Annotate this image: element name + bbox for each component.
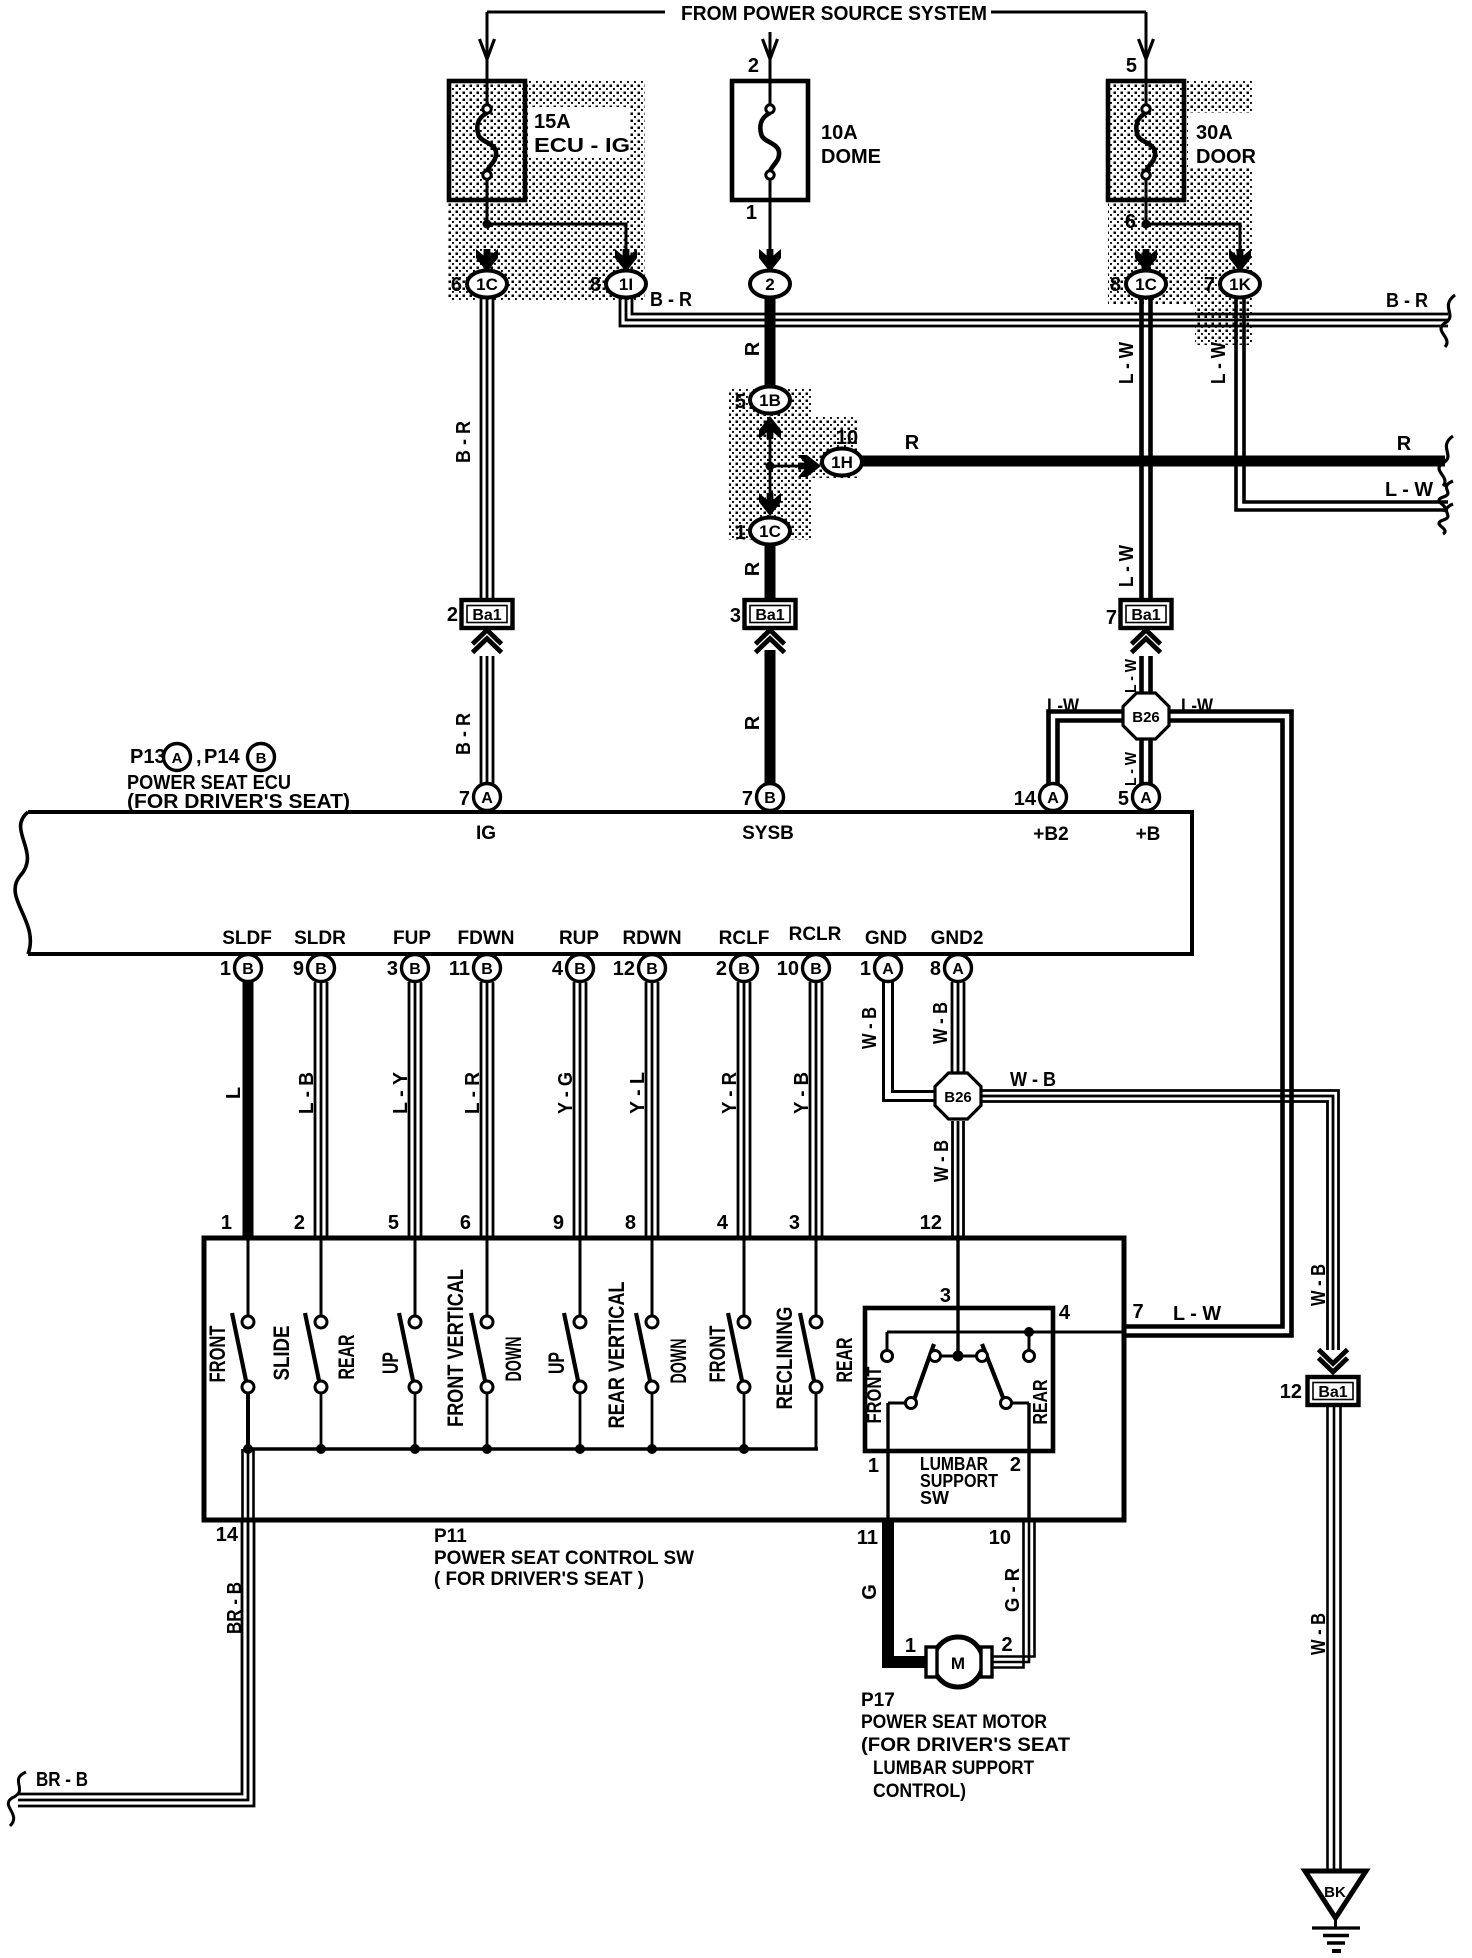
svg-text:A: A — [172, 750, 183, 767]
svg-text:3: 3 — [730, 605, 741, 627]
svg-text:10A: 10A — [821, 122, 858, 144]
svg-text:IG: IG — [476, 823, 496, 844]
svg-text:1K: 1K — [1229, 275, 1251, 294]
svg-text:W - B: W - B — [1308, 1264, 1330, 1306]
svg-text:B: B — [481, 961, 493, 978]
svg-text:(FOR DRIVER'S SEAT: (FOR DRIVER'S SEAT — [861, 1735, 1070, 1756]
svg-text:P13: P13 — [130, 746, 166, 768]
svg-text:B - R: B - R — [650, 289, 692, 311]
svg-text:GND: GND — [865, 928, 907, 949]
svg-text:5: 5 — [388, 1212, 399, 1234]
svg-text:7: 7 — [1132, 1301, 1143, 1323]
svg-text:1: 1 — [905, 1635, 916, 1657]
svg-text:Y - L: Y - L — [627, 1072, 649, 1114]
svg-text:L - W: L - W — [1208, 342, 1230, 384]
svg-text:1H: 1H — [831, 453, 853, 472]
svg-text:GND2: GND2 — [931, 928, 984, 949]
svg-text:7: 7 — [742, 788, 753, 810]
svg-text:1C: 1C — [1135, 275, 1157, 294]
svg-text:B: B — [810, 961, 822, 978]
svg-text:2: 2 — [447, 604, 458, 626]
svg-text:B - R: B - R — [1386, 290, 1428, 312]
svg-text:(FOR DRIVER'S SEAT): (FOR DRIVER'S SEAT) — [127, 791, 350, 813]
svg-text:A: A — [1047, 790, 1059, 807]
svg-text:B: B — [646, 961, 658, 978]
svg-text:3: 3 — [789, 1212, 800, 1234]
svg-text:UP: UP — [544, 1352, 569, 1374]
svg-text:5: 5 — [735, 391, 746, 413]
svg-text:4: 4 — [1059, 1302, 1071, 1324]
svg-text:3: 3 — [940, 1285, 951, 1307]
svg-text:5: 5 — [1118, 788, 1129, 810]
svg-text:W - B: W - B — [1308, 1613, 1330, 1655]
svg-text:REAR: REAR — [1030, 1379, 1052, 1424]
svg-text:R: R — [1397, 433, 1412, 455]
svg-text:FROM POWER SOURCE SYSTEM: FROM POWER SOURCE SYSTEM — [681, 3, 987, 25]
svg-text:L: L — [223, 1087, 245, 1099]
svg-text:1: 1 — [746, 202, 757, 224]
svg-text:14: 14 — [1014, 788, 1037, 810]
svg-text:SLIDE: SLIDE — [269, 1326, 294, 1381]
svg-text:1: 1 — [868, 1455, 879, 1477]
svg-text:8: 8 — [625, 1212, 636, 1234]
svg-text:2: 2 — [716, 958, 727, 980]
svg-text:R: R — [742, 561, 764, 576]
svg-text:L - Y: L - Y — [390, 1071, 412, 1114]
svg-text:2: 2 — [294, 1212, 305, 1234]
svg-text:B: B — [315, 961, 327, 978]
svg-text:9: 9 — [553, 1212, 564, 1234]
svg-text:2: 2 — [748, 55, 759, 77]
svg-text:30A: 30A — [1196, 122, 1233, 144]
svg-text:CONTROL): CONTROL) — [873, 1781, 966, 1802]
svg-text:A: A — [1140, 790, 1152, 807]
svg-text:6: 6 — [451, 274, 462, 296]
svg-text:B: B — [574, 961, 586, 978]
svg-text:5: 5 — [1126, 55, 1137, 77]
svg-text:RCLR: RCLR — [789, 924, 842, 945]
svg-text:B: B — [242, 961, 254, 978]
svg-text:9: 9 — [293, 958, 304, 980]
svg-text:W - B: W - B — [930, 1002, 952, 1044]
svg-text:REAR: REAR — [334, 1334, 359, 1379]
svg-text:L-W: L-W — [1181, 696, 1213, 717]
svg-text:11: 11 — [857, 1527, 878, 1549]
svg-text:ECU - IG: ECU - IG — [534, 135, 630, 157]
svg-text:12: 12 — [920, 1212, 942, 1234]
svg-text:M: M — [951, 1654, 965, 1673]
svg-text:FDWN: FDWN — [458, 928, 515, 949]
svg-text:,: , — [196, 746, 202, 768]
svg-text:7: 7 — [1204, 274, 1215, 296]
svg-text:7: 7 — [459, 788, 470, 810]
svg-text:Y - B: Y - B — [791, 1072, 813, 1114]
svg-text:FRONT: FRONT — [205, 1325, 230, 1382]
svg-text:L - R: L - R — [462, 1071, 484, 1114]
svg-text:DOOR: DOOR — [1196, 146, 1257, 168]
svg-text:4: 4 — [552, 958, 564, 980]
svg-text:L - W: L - W — [1173, 1303, 1221, 1325]
svg-text:15A: 15A — [534, 111, 571, 133]
svg-text:+B2: +B2 — [1033, 824, 1068, 845]
svg-text:FRONT: FRONT — [705, 1325, 730, 1382]
svg-text:L - W: L - W — [1385, 479, 1433, 501]
svg-text:2: 2 — [1001, 1634, 1012, 1656]
svg-text:10: 10 — [836, 427, 858, 449]
svg-text:( FOR DRIVER'S SEAT ): ( FOR DRIVER'S SEAT ) — [434, 1569, 644, 1590]
svg-text:10: 10 — [777, 958, 799, 980]
svg-text:1C: 1C — [476, 275, 498, 294]
svg-text:P11: P11 — [434, 1526, 467, 1547]
svg-text:L - W: L - W — [1123, 658, 1140, 693]
svg-text:BR - B: BR - B — [224, 1582, 246, 1634]
svg-text:FUP: FUP — [393, 928, 431, 949]
svg-text:B26: B26 — [944, 1089, 972, 1106]
svg-text:B: B — [409, 961, 421, 978]
svg-text:Ba1: Ba1 — [472, 607, 501, 624]
svg-text:L - B: L - B — [296, 1072, 318, 1114]
svg-text:DOME: DOME — [821, 146, 881, 168]
svg-text:UP: UP — [378, 1352, 403, 1374]
svg-text:7: 7 — [1106, 607, 1117, 629]
svg-text:W - B: W - B — [859, 1007, 881, 1049]
svg-text:BK: BK — [1324, 1884, 1346, 1901]
svg-text:POWER SEAT CONTROL SW: POWER SEAT CONTROL SW — [434, 1548, 694, 1569]
svg-text:FRONT: FRONT — [864, 1367, 886, 1424]
svg-text:REAR VERTICAL: REAR VERTICAL — [604, 1282, 629, 1429]
svg-text:Y - R: Y - R — [719, 1071, 741, 1114]
svg-text:B: B — [738, 961, 750, 978]
svg-text:R: R — [742, 341, 764, 356]
svg-text:Y - G: Y - G — [555, 1072, 577, 1114]
svg-text:RDWN: RDWN — [622, 928, 681, 949]
svg-text:Ba1: Ba1 — [755, 607, 784, 624]
svg-text:R: R — [905, 432, 920, 454]
svg-text:SLDF: SLDF — [222, 928, 272, 949]
svg-text:1B: 1B — [759, 391, 781, 410]
svg-text:6: 6 — [460, 1212, 471, 1234]
svg-text:G: G — [859, 1584, 881, 1600]
svg-text:R: R — [742, 715, 764, 730]
svg-text:A: A — [882, 961, 894, 978]
svg-text:DOWN: DOWN — [666, 1339, 691, 1384]
svg-text:L-W: L-W — [1047, 696, 1079, 717]
svg-text:12: 12 — [613, 958, 635, 980]
svg-text:L - W: L - W — [1116, 342, 1138, 384]
svg-text:SYSB: SYSB — [742, 823, 794, 844]
svg-text:RCLF: RCLF — [719, 928, 770, 949]
svg-text:P14: P14 — [204, 746, 240, 768]
svg-text:G - R: G - R — [1002, 1567, 1024, 1612]
svg-text:SLDR: SLDR — [294, 928, 346, 949]
svg-text:B - R: B - R — [453, 713, 475, 755]
svg-text:BR - B: BR - B — [36, 1769, 88, 1791]
svg-text:L - W: L - W — [1123, 751, 1140, 786]
svg-text:10: 10 — [989, 1527, 1011, 1549]
svg-text:LUMBAR SUPPORT: LUMBAR SUPPORT — [873, 1758, 1034, 1779]
svg-text:2: 2 — [765, 275, 774, 294]
svg-text:1: 1 — [735, 522, 746, 544]
svg-text:3: 3 — [387, 958, 398, 980]
svg-text:8: 8 — [1110, 274, 1121, 296]
svg-text:A: A — [952, 961, 964, 978]
svg-text:FRONT VERTICAL: FRONT VERTICAL — [443, 1269, 468, 1427]
svg-text:2: 2 — [1010, 1454, 1021, 1476]
svg-text:+B: +B — [1136, 824, 1161, 845]
svg-text:1C: 1C — [759, 522, 781, 541]
svg-text:SW: SW — [920, 1488, 949, 1508]
svg-text:POWER SEAT MOTOR: POWER SEAT MOTOR — [861, 1712, 1047, 1733]
svg-text:1: 1 — [860, 958, 871, 980]
svg-text:12: 12 — [1280, 1381, 1302, 1403]
svg-text:Ba1: Ba1 — [1318, 1384, 1347, 1401]
svg-text:L - W: L - W — [1116, 545, 1138, 587]
svg-text:B - R: B - R — [453, 421, 475, 463]
svg-text:RECLINING: RECLINING — [772, 1307, 797, 1410]
svg-text:1: 1 — [221, 1212, 232, 1234]
svg-text:B: B — [764, 790, 776, 807]
svg-text:W - B: W - B — [931, 1140, 953, 1182]
svg-text:11: 11 — [449, 958, 470, 980]
svg-text:RUP: RUP — [559, 928, 599, 949]
svg-text:4: 4 — [717, 1212, 729, 1234]
svg-text:P17: P17 — [861, 1690, 895, 1711]
svg-text:W - B: W - B — [1010, 1069, 1056, 1091]
svg-text:REAR: REAR — [832, 1337, 857, 1382]
svg-text:8: 8 — [930, 958, 941, 980]
svg-text:B26: B26 — [1132, 709, 1160, 726]
svg-text:8: 8 — [590, 274, 601, 296]
svg-text:1: 1 — [220, 958, 231, 980]
svg-text:1I: 1I — [619, 275, 633, 294]
svg-text:14: 14 — [216, 1524, 239, 1546]
svg-text:Ba1: Ba1 — [1131, 607, 1160, 624]
svg-text:B: B — [256, 750, 267, 767]
svg-text:DOWN: DOWN — [501, 1337, 526, 1382]
svg-text:6: 6 — [1125, 211, 1136, 233]
svg-text:A: A — [481, 790, 493, 807]
